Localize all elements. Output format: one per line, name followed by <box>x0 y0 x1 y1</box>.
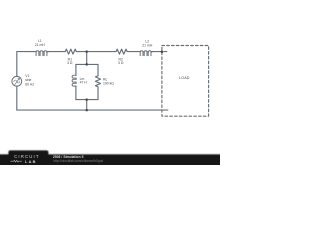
wire shunt loop top bar <box>76 63 98 65</box>
wire node to R2 <box>87 51 115 53</box>
wire source bottom vertical <box>16 86 18 110</box>
inductor Lm <box>72 74 76 87</box>
wire bottom rail <box>17 109 168 111</box>
resistor R2 <box>114 49 128 54</box>
wire branch vertical from node <box>86 52 88 65</box>
wire shunt loop bottom bar <box>76 99 98 101</box>
logo resistor glyph <box>10 160 22 162</box>
node junction dot on rail <box>85 109 88 112</box>
resistor Rc <box>95 75 100 87</box>
inductor L1 <box>35 51 48 56</box>
wire L1 to R1 <box>48 51 64 53</box>
svg-text:LAB: LAB <box>25 159 37 164</box>
wire right branch lower <box>97 88 99 100</box>
wire source top vertical <box>17 52 36 77</box>
wire R1 to node <box>78 51 87 53</box>
wire R2 to L2 <box>129 51 140 53</box>
inductor L2 <box>139 51 152 56</box>
wire left branch upper <box>75 64 77 74</box>
svg-text:http://circuitlab.com/c4kxmvr5: http://circuitlab.com/c4kxmvr5r5ypd <box>53 159 103 163</box>
node terminal dot at load <box>161 50 164 53</box>
resistor R1 <box>64 49 78 54</box>
load box dashed <box>162 46 209 117</box>
wire dashed stub into load <box>164 51 167 53</box>
voltage source V1 <box>12 76 22 86</box>
wire shunt stub to rail <box>86 100 88 111</box>
logo badge <box>8 150 48 166</box>
node junction dot on top wire <box>85 50 88 53</box>
logo wire after LAB <box>38 160 47 162</box>
node junction dot loop bottom <box>85 98 88 101</box>
wire left branch lower <box>75 87 77 100</box>
wire L2 to load <box>152 51 162 53</box>
wire right branch upper <box>97 64 99 75</box>
node junction dot loop top <box>85 63 88 66</box>
footer bar <box>0 0 220 165</box>
